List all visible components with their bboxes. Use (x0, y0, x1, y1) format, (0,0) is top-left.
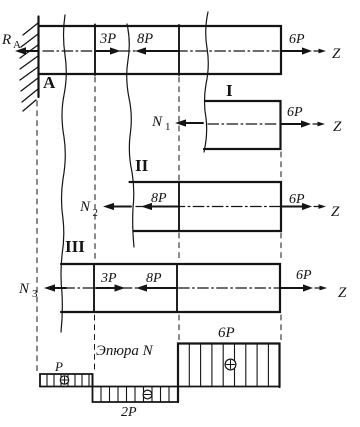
svg-text:R: R (1, 32, 11, 48)
svg-text:6P: 6P (289, 32, 305, 47)
svg-text:N: N (79, 199, 91, 215)
svg-text:2: 2 (93, 207, 99, 219)
section cut wavy line II (127, 24, 134, 247)
svg-text:N: N (18, 281, 30, 297)
N2 arrow (113, 206, 131, 208)
svg-text:3P: 3P (100, 271, 117, 286)
block 2P hatching (101, 387, 169, 403)
block P plus sign (60, 376, 68, 384)
svg-text:3: 3 (32, 288, 38, 300)
reaction R_A arrow (25, 50, 38, 52)
svg-text:II: II (135, 156, 149, 175)
block 6P plus sign (225, 359, 236, 370)
projection dashed line x=95 (94, 77, 97, 371)
svg-text:8P: 8P (146, 271, 162, 286)
force 8P arrow (III) (146, 287, 177, 289)
block 6P outline (178, 344, 280, 403)
force 6P arrow + Z axis (row1) (281, 50, 304, 52)
svg-text:Z: Z (338, 285, 347, 301)
block 2P minus sign (143, 390, 152, 399)
bar I outline (204, 101, 281, 149)
svg-text:P: P (54, 359, 63, 374)
force application division x=179 (row1) (178, 25, 180, 75)
division x=179 (II) (178, 182, 180, 231)
force 6P arrow + Z axis (I) (281, 123, 304, 125)
svg-text:6P: 6P (287, 105, 303, 120)
centerline row1 (43, 50, 279, 52)
block 6P hatching (189, 344, 268, 387)
svg-text:1: 1 (165, 121, 171, 133)
svg-text:A: A (13, 39, 21, 51)
zero baseline (40, 386, 280, 388)
bar (top figure) outline (39, 26, 282, 74)
bar III outline (61, 264, 280, 312)
N3 arrow (54, 287, 66, 289)
svg-text:8P: 8P (137, 31, 153, 47)
svg-text:2P: 2P (121, 405, 137, 420)
section cut wavy line I (204, 12, 208, 152)
force 6P arrow + Z axis (III) (280, 287, 305, 289)
force 8P arrow (row1) (145, 50, 179, 52)
svg-text:6P: 6P (289, 192, 305, 207)
wall support hatching (20, 23, 38, 111)
projection dashed line x=179 (178, 77, 180, 341)
block P outline (40, 374, 93, 387)
svg-text:Z: Z (333, 119, 342, 135)
projection dashed line x=281 (280, 152, 282, 341)
svg-text:Эпюра N: Эпюра N (96, 343, 154, 359)
N1 arrow (184, 122, 203, 124)
bar II outline (130, 182, 282, 231)
svg-text:8P: 8P (151, 191, 167, 206)
block P hatching (47, 374, 89, 387)
svg-text:III: III (65, 237, 85, 256)
force 3P arrow (row1) (96, 50, 112, 52)
force application division x=95 (row1) (94, 25, 96, 76)
wall line (37, 17, 39, 98)
force 3P arrow (III) (96, 287, 117, 289)
svg-text:Z: Z (332, 46, 341, 62)
svg-text:I: I (226, 81, 233, 100)
section cut wavy line III (61, 15, 66, 332)
svg-text:6P: 6P (218, 325, 235, 341)
projection dashed line x=37 (36, 101, 38, 372)
centerline II (136, 206, 280, 208)
svg-text:A: A (43, 73, 56, 92)
svg-text:N: N (151, 114, 163, 130)
block 2P outline (93, 374, 179, 402)
svg-text:6P: 6P (296, 268, 312, 283)
force 6P arrow + Z axis (II) (281, 206, 304, 208)
force 8P arrow (II) (151, 206, 179, 208)
centerline I (208, 123, 279, 125)
svg-text:Z: Z (331, 204, 340, 220)
svg-text:3P: 3P (99, 31, 116, 47)
division x=94 (III) (93, 264, 95, 312)
division x=177 (III) (176, 264, 178, 312)
centerline III (64, 287, 279, 289)
